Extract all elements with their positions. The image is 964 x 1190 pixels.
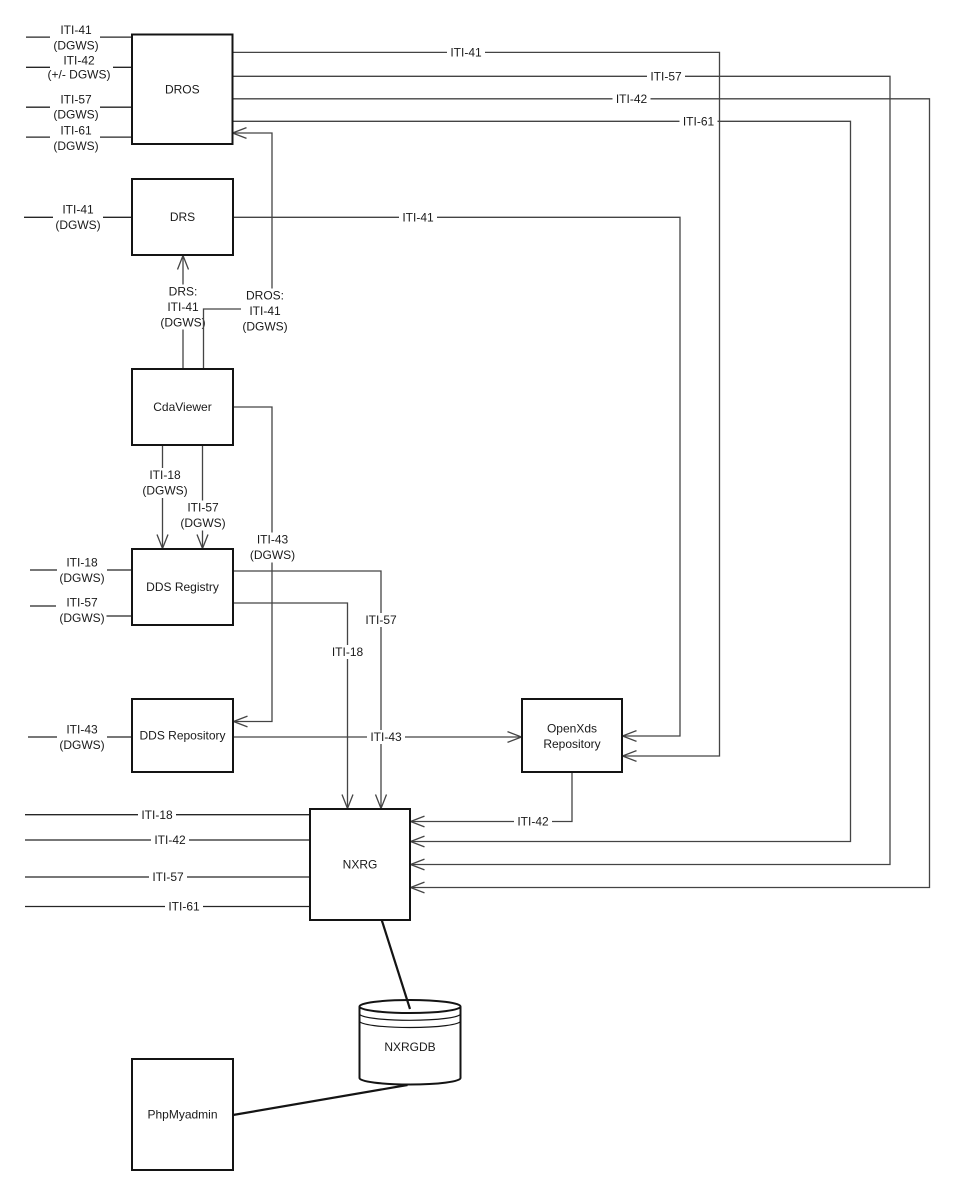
wire DDS Registry left ITI-18 xyxy=(30,569,132,571)
svg-text:ITI-42: ITI-42 xyxy=(616,92,648,106)
svg-text:(DGWS): (DGWS) xyxy=(59,611,104,625)
svg-text:(DGWS): (DGWS) xyxy=(55,218,100,232)
label ITI-42 NXRG left 2 xyxy=(151,833,189,847)
label ITI-42 on DROS line xyxy=(613,92,651,106)
wire DDS Repository to OpenXds ITI-43 xyxy=(233,732,522,743)
label DRS: ITI-41 (DGWS) xyxy=(159,285,207,330)
label ITI-57 (DGWS) xyxy=(179,501,227,531)
label ITI-18 (DGWS) xyxy=(141,468,189,498)
svg-text:DDS Repository: DDS Repository xyxy=(139,729,225,743)
svg-text:PhpMyadmin: PhpMyadmin xyxy=(147,1108,217,1122)
box PhpMyadmin xyxy=(132,1059,233,1170)
svg-text:DRS:: DRS: xyxy=(169,285,198,299)
svg-text:(DGWS): (DGWS) xyxy=(53,38,98,52)
svg-text:Repository: Repository xyxy=(543,737,600,751)
wire DROS left ITI-57 xyxy=(26,106,132,108)
svg-text:(+/- DGWS): (+/- DGWS) xyxy=(48,67,111,81)
wire DRS left ITI-41 xyxy=(24,216,132,218)
svg-text:ITI-57: ITI-57 xyxy=(66,596,98,610)
svg-text:ITI-41: ITI-41 xyxy=(249,304,281,318)
label ITI-42 (+/- DGWS) DROS left 2 xyxy=(48,53,111,81)
label DROS: ITI-41 (DGWS) xyxy=(241,289,289,334)
svg-text:ITI-41: ITI-41 xyxy=(62,203,94,217)
svg-text:(DGWS): (DGWS) xyxy=(59,571,104,585)
svg-text:ITI-57: ITI-57 xyxy=(365,613,397,627)
label ITI-57 (DGWS) DROS left 3 xyxy=(53,93,98,122)
label ITI-43 on horizontal xyxy=(367,730,405,744)
svg-text:(DGWS): (DGWS) xyxy=(180,516,225,530)
svg-text:ITI-42: ITI-42 xyxy=(63,53,95,67)
svg-text:(DGWS): (DGWS) xyxy=(160,316,205,330)
svg-text:ITI-57: ITI-57 xyxy=(152,870,184,884)
svg-text:ITI-57: ITI-57 xyxy=(187,501,219,515)
svg-text:(DGWS): (DGWS) xyxy=(250,548,295,562)
wire DROS left ITI-61 xyxy=(26,136,132,138)
svg-text:(DGWS): (DGWS) xyxy=(53,108,98,122)
wire OpenXds to NXRG ITI-42 xyxy=(411,772,573,827)
wire NXRG left ITI-61 xyxy=(25,906,310,908)
label ITI-41 on DROS line xyxy=(447,45,485,59)
label ITI-41 (DGWS) DROS left 1 xyxy=(53,23,98,53)
wire NXRG left ITI-57 xyxy=(25,876,310,878)
svg-text:(DGWS): (DGWS) xyxy=(53,139,98,153)
svg-text:ITI-41: ITI-41 xyxy=(402,211,434,225)
wire CdaViewer to DDS Registry ITI-57 xyxy=(197,445,208,549)
svg-text:ITI-18: ITI-18 xyxy=(332,645,364,659)
label ITI-18 on vertical xyxy=(329,645,367,659)
wire CdaViewer to DDS Registry ITI-18 xyxy=(157,445,168,549)
box CdaViewer xyxy=(132,369,233,445)
svg-text:ITI-43: ITI-43 xyxy=(257,533,289,547)
wire CdaViewer to DRS xyxy=(178,256,189,370)
svg-text:DDS Registry: DDS Registry xyxy=(146,580,219,594)
wire DROS to NXRG ITI-61 xyxy=(233,121,851,847)
label ITI-43 (DGWS) xyxy=(249,533,297,563)
wire NXRG left ITI-42 xyxy=(25,839,310,841)
svg-text:ITI-43: ITI-43 xyxy=(370,730,402,744)
svg-text:ITI-57: ITI-57 xyxy=(60,93,92,107)
label ITI-57 NXRG left 3 xyxy=(149,870,187,884)
svg-text:ITI-18: ITI-18 xyxy=(149,468,181,482)
label ITI-61 NXRG left 4 xyxy=(165,900,203,914)
svg-text:ITI-41: ITI-41 xyxy=(60,23,92,37)
label ITI-43 (DGWS) Repository left xyxy=(59,723,104,753)
box DDS Registry xyxy=(132,549,233,625)
box DROS xyxy=(132,35,233,145)
wire DROS left ITI-41 xyxy=(26,36,132,38)
box OpenXds Repository xyxy=(522,699,622,772)
svg-text:(DGWS): (DGWS) xyxy=(142,484,187,498)
wire DDS Repository left ITI-43 xyxy=(28,736,132,738)
label ITI-57 (DGWS) Registry left 2 xyxy=(59,596,104,626)
wire CdaViewer to DDS Repository ITI-43 xyxy=(233,407,272,727)
label ITI-57 on DROS line xyxy=(647,69,685,83)
svg-text:ITI-41: ITI-41 xyxy=(167,300,199,314)
wire DROS to OpenXds ITI-41 xyxy=(233,52,720,761)
label ITI-61 on DROS line xyxy=(680,114,718,128)
svg-text:ITI-42: ITI-42 xyxy=(154,833,186,847)
svg-text:ITI-61: ITI-61 xyxy=(60,123,92,137)
box DRS xyxy=(132,179,233,255)
svg-text:ITI-61: ITI-61 xyxy=(168,900,200,914)
svg-text:DRS: DRS xyxy=(170,210,195,224)
wire DROS to NXRG ITI-57 xyxy=(233,76,891,870)
database cylinder NXRGDB xyxy=(360,1000,461,1085)
wire PhpMyadmin to NXRGDB xyxy=(233,1085,408,1115)
svg-text:NXRG: NXRG xyxy=(343,858,378,872)
svg-text:ITI-18: ITI-18 xyxy=(66,556,98,570)
wire NXRG left ITI-18 xyxy=(25,814,310,816)
wire DDS Registry to NXRG ITI-57 xyxy=(233,571,387,809)
label ITI-18 (DGWS) Registry left 1 xyxy=(59,556,104,586)
svg-text:ITI-57: ITI-57 xyxy=(650,70,682,84)
box NXRG xyxy=(310,809,410,920)
svg-text:NXRGDB: NXRGDB xyxy=(384,1040,435,1054)
label ITI-61 (DGWS) DROS left 4 xyxy=(53,123,98,153)
svg-text:ITI-18: ITI-18 xyxy=(141,808,173,822)
box DDS Repository xyxy=(132,699,233,772)
label ITI-18 NXRG left 1 xyxy=(138,808,176,822)
label ITI-41 (DGWS) DRS left xyxy=(55,203,100,233)
svg-text:OpenXds: OpenXds xyxy=(547,722,597,736)
svg-text:ITI-43: ITI-43 xyxy=(66,723,98,737)
svg-text:DROS: DROS xyxy=(165,83,200,97)
label ITI-57 on vertical xyxy=(362,613,400,627)
svg-text:(DGWS): (DGWS) xyxy=(59,738,104,752)
wire DDS Registry left ITI-57 xyxy=(30,606,132,616)
label ITI-42 on OpenXds line xyxy=(514,815,552,829)
wire DROS to NXRG ITI-42 xyxy=(233,99,930,893)
wire DROS left ITI-42 xyxy=(26,66,132,68)
svg-text:DROS:: DROS: xyxy=(246,289,284,303)
wire CdaViewer to DROS xyxy=(204,128,273,369)
svg-text:(DGWS): (DGWS) xyxy=(242,320,287,334)
wire DRS to OpenXds ITI-41 xyxy=(233,217,680,741)
label ITI-41 on DRS line xyxy=(399,210,437,224)
svg-text:ITI-42: ITI-42 xyxy=(517,815,549,829)
wire NXRG to NXRGDB xyxy=(382,920,410,1009)
svg-text:ITI-41: ITI-41 xyxy=(450,46,482,60)
wire DDS Registry to NXRG ITI-18 xyxy=(233,603,353,809)
svg-text:CdaViewer: CdaViewer xyxy=(153,400,211,414)
svg-text:ITI-61: ITI-61 xyxy=(683,115,715,129)
